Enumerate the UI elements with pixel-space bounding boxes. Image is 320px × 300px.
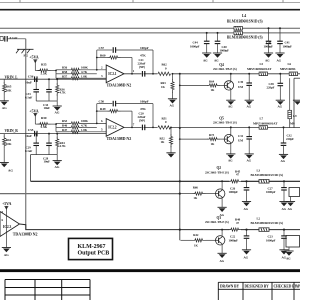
- wire joining caps bottom: [36, 100, 57, 102]
- wire V2 vertical: [179, 74, 181, 241]
- wire tick x20: [19, 0, 21, 3]
- op-amp U2.1 triangle: [106, 65, 124, 83]
- svg-text:1000pF: 1000pF: [190, 44, 200, 48]
- svg-text:47: 47: [236, 173, 239, 177]
- svg-text:AG: AG: [278, 105, 283, 109]
- capacitor C26: [246, 181, 248, 187]
- svg-text:1K: 1K: [194, 244, 198, 248]
- capacitor C56 inline: [35, 76, 37, 82]
- wire tick x133: [132, 0, 134, 3]
- svg-text:TDA1308D N2: TDA1308D N2: [107, 136, 132, 141]
- svg-text:(NP): (NP): [139, 65, 145, 69]
- svg-text:1000pF: 1000pF: [266, 190, 276, 194]
- svg-text:1K: 1K: [211, 142, 215, 146]
- wire collector Q2: [221, 181, 223, 189]
- left revision table: [5, 280, 90, 300]
- svg-text:Q2: Q2: [217, 166, 222, 170]
- svg-text:1K: 1K: [211, 88, 215, 92]
- resistor R73: [207, 138, 220, 141]
- capacitor C27: [283, 181, 285, 187]
- svg-text:VRIN_R: VRIN_R: [5, 129, 19, 133]
- svg-text:Output PCB: Output PCB: [78, 251, 110, 257]
- resistor R44 vertical: [56, 134, 58, 139]
- svg-text:AG: AG: [228, 158, 233, 162]
- svg-text:4.7K: 4.7K: [81, 124, 88, 128]
- svg-text:C57: C57: [99, 46, 105, 50]
- svg-text:AG: AG: [55, 165, 60, 169]
- svg-text:2SC3661-TB-E (S): 2SC3661-TB-E (S): [213, 67, 237, 71]
- capacitor C34 10uF: [48, 79, 50, 89]
- wire emitter Q3 + ground: [221, 245, 223, 253]
- svg-text:AG: AG: [8, 169, 13, 173]
- svg-text:AG: AG: [214, 58, 219, 62]
- resistor R45 on line A: [230, 179, 242, 184]
- transistor Q5: [224, 134, 233, 143]
- svg-text:DESIGNED BY: DESIGNED BY: [245, 285, 270, 289]
- svg-text:L2: L2: [257, 217, 261, 221]
- svg-text:R50: R50: [41, 116, 47, 120]
- svg-text:C55: C55: [28, 128, 34, 132]
- svg-text:5.3K: 5.3K: [41, 125, 48, 129]
- capacitor C57 feedback: [97, 49, 113, 51]
- ground caps ch1: [53, 106, 62, 111]
- resistor R65 vertical: [3, 79, 5, 83]
- wire pin2 feedback vertical: [96, 50, 98, 70]
- svg-text:BLM31BD601SN1D (S): BLM31BD601SN1D (S): [227, 20, 263, 24]
- resistor R56 row1: [56, 69, 69, 71]
- svg-text:L6: L6: [288, 62, 292, 66]
- svg-text:AG: AG: [228, 105, 233, 109]
- svg-text:47K: 47K: [140, 107, 146, 111]
- wire riser to line A: [30, 155, 32, 182]
- svg-text:AG: AG: [282, 207, 287, 211]
- transistor Q3: [216, 236, 225, 245]
- resistor R46 row2: [56, 126, 69, 128]
- inductor L6 bead on W1: [289, 72, 297, 76]
- ground R61: [0, 163, 9, 168]
- svg-text:BLM31BD601SN1D (S): BLM31BD601SN1D (S): [227, 35, 263, 39]
- transistor Q2: [216, 189, 225, 198]
- ground jack: [293, 100, 302, 105]
- connector stub box: [0, 37, 3, 41]
- wire input ch2: [0, 133, 34, 135]
- wire junction vertical ch2: [55, 123, 57, 131]
- capacitor C45: [268, 28, 270, 41]
- wire input ch1: [0, 78, 34, 80]
- wire base ch2: [180, 138, 208, 140]
- junction dots on V2: [179, 229, 181, 231]
- svg-text:R56: R56: [62, 66, 68, 70]
- svg-text:5.3K: 5.3K: [41, 71, 48, 75]
- svg-text:220pF: 220pF: [267, 86, 275, 90]
- wire output W1: [124, 73, 300, 75]
- svg-text:C50: C50: [99, 100, 105, 104]
- inductor L5 bead on W1: [259, 72, 267, 76]
- op-amp U2.3 triangle: [0, 212, 20, 237]
- svg-text:L3: L3: [257, 168, 261, 172]
- svg-text:4.7K: 4.7K: [60, 144, 67, 148]
- svg-text:1000pF: 1000pF: [264, 44, 274, 48]
- svg-text:MPZ1608S: MPZ1608S: [280, 67, 296, 71]
- svg-text:10uF: 10uF: [25, 81, 32, 85]
- svg-text:R55: R55: [41, 63, 47, 67]
- capacitor C39: [248, 74, 250, 83]
- capacitor C21 inline 220uF NP: [142, 71, 144, 77]
- svg-text:+5VA: +5VA: [29, 108, 39, 113]
- capacitor C30 0.1uF: [35, 134, 37, 144]
- capacitor C22: [246, 230, 248, 236]
- resistor R51 0 inline: [158, 125, 172, 130]
- ground FG (chassis): [16, 49, 34, 53]
- thick border: [0, 269, 300, 272]
- resistor R66: [193, 192, 206, 195]
- svg-text:AG: AG: [170, 104, 175, 108]
- svg-text:R58: R58: [62, 70, 68, 74]
- svg-text:1000pF: 1000pF: [229, 190, 239, 194]
- resistor R57 row3: [56, 77, 69, 79]
- wire junction vertical: [55, 70, 57, 78]
- svg-text:AP: AP: [296, 285, 301, 289]
- ground jack A: [290, 197, 292, 202]
- svg-text:TDA1308D N2: TDA1308D N2: [13, 231, 38, 236]
- svg-text:AG: AG: [247, 105, 252, 109]
- wire joining caps bottom ch2: [31, 154, 58, 156]
- capacitor C55 inline: [35, 131, 37, 137]
- svg-text:4.7K: 4.7K: [60, 91, 67, 95]
- svg-text:AG: AG: [2, 106, 7, 110]
- wire dark top rail: [0, 9, 300, 11]
- ground jack D: [288, 247, 290, 251]
- svg-text:L5: L5: [260, 62, 264, 66]
- resistor R60 feedback: [97, 57, 108, 59]
- wire collector Q4: [230, 74, 232, 81]
- svg-text:1000pF: 1000pF: [220, 49, 230, 53]
- svg-text:L4: L4: [242, 14, 246, 18]
- resistor R50: [38, 123, 51, 126]
- svg-text:C56: C56: [28, 75, 34, 79]
- resistor R53 row1: [56, 122, 69, 124]
- svg-text:AG: AG: [286, 257, 291, 261]
- wire collector Q5: [230, 127, 232, 134]
- wire top thin bus: [0, 2, 300, 4]
- resistor R49 feedback: [97, 110, 108, 112]
- resistor R62 0 inline: [158, 72, 172, 77]
- svg-text:R60: R60: [100, 53, 106, 57]
- svg-text:AG: AG: [244, 207, 249, 211]
- svg-text:10uF: 10uF: [44, 160, 51, 164]
- wire bus T3b: [0, 32, 234, 34]
- inductor L4b ferrite bead on T3b: [234, 31, 242, 35]
- svg-text:AG: AG: [247, 158, 252, 162]
- svg-text:100K: 100K: [81, 119, 88, 123]
- svg-text:L7: L7: [260, 116, 264, 120]
- transistor Q4: [224, 81, 233, 90]
- jack ch1 right edge: [294, 77, 300, 79]
- capacitor C28 10uF: [48, 134, 50, 144]
- svg-text:0.1uF: 0.1uF: [25, 95, 32, 99]
- svg-text:UM: UM: [238, 138, 243, 142]
- svg-text:MPZ1608S601AT: MPZ1608S601AT: [253, 122, 278, 126]
- svg-text:2SC3661-TB-E (S): 2SC3661-TB-E (S): [205, 171, 229, 175]
- svg-text:+5VA: +5VA: [2, 201, 12, 206]
- svg-text:BLM31BD601SN1D (S): BLM31BD601SN1D (S): [251, 173, 284, 177]
- svg-text:BLM31BD601SN1D (S): BLM31BD601SN1D (S): [251, 221, 284, 225]
- connector jack A: [289, 188, 300, 197]
- resistor R63 vertical + ground: [172, 74, 174, 80]
- svg-text:DRAWN BY: DRAWN BY: [220, 285, 240, 289]
- capacitor C33 0.1uF: [35, 79, 37, 89]
- capacitor C41: [279, 28, 281, 41]
- resistor R47 row3: [56, 131, 69, 133]
- resistor R58 row2: [56, 73, 69, 75]
- svg-text:AG: AG: [203, 58, 208, 62]
- right title block: [218, 282, 300, 300]
- svg-text:L9: L9: [293, 114, 297, 118]
- capacitor C44: [206, 33, 208, 41]
- capacitor C32: [283, 127, 285, 143]
- svg-text:R47: R47: [62, 128, 68, 132]
- resistor R52 vertical + ground: [170, 127, 172, 135]
- svg-text:2SC3661-TB-E (S): 2SC3661-TB-E (S): [213, 121, 237, 125]
- svg-text:MPZ1608S601AT: MPZ1608S601AT: [247, 67, 272, 71]
- svg-text:0.1uF: 0.1uF: [25, 149, 32, 153]
- resistor R61 vertical: [3, 134, 5, 138]
- wire collector Q3: [221, 230, 223, 236]
- svg-text:10uF: 10uF: [44, 106, 51, 110]
- svg-text:220pF: 220pF: [286, 137, 294, 141]
- svg-text:1000pF: 1000pF: [283, 44, 293, 48]
- svg-text:M9: M9: [290, 122, 295, 126]
- svg-text:AG: AG: [288, 207, 293, 211]
- svg-text:R53: R53: [62, 119, 68, 123]
- capacitor inline 0.1uF: [5, 36, 7, 42]
- svg-text:1000pF: 1000pF: [266, 239, 276, 243]
- svg-text:0.1uF: 0.1uF: [10, 36, 18, 40]
- svg-text:R42: R42: [193, 233, 199, 237]
- capacitor C38: [279, 74, 281, 84]
- inductor L3 bead on line A: [259, 180, 269, 184]
- svg-text:1K: 1K: [161, 85, 165, 89]
- resistor R55: [38, 69, 51, 72]
- svg-text:TDA1308D N2: TDA1308D N2: [107, 83, 132, 88]
- svg-text:AG: AG: [265, 58, 270, 62]
- svg-text:R73: R73: [209, 133, 215, 137]
- svg-text:4.7K: 4.7K: [81, 70, 88, 74]
- wire pin6 feedback vertical: [96, 104, 98, 124]
- wire output W2: [124, 126, 300, 128]
- wire: [3, 38, 5, 40]
- svg-text:R64: R64: [209, 79, 215, 83]
- wire bus T3a: [0, 27, 234, 29]
- svg-text:100pF: 100pF: [140, 100, 149, 104]
- svg-text:1K: 1K: [193, 196, 197, 200]
- capacitor C31: [248, 127, 250, 136]
- svg-text:10K: 10K: [6, 89, 12, 93]
- svg-text:AG: AG: [277, 58, 282, 62]
- svg-text:100K: 100K: [81, 66, 88, 70]
- wire line B: [0, 193, 180, 195]
- svg-text:47: 47: [236, 221, 239, 225]
- svg-text:10uF: 10uF: [25, 134, 32, 138]
- svg-text:AG: AG: [281, 159, 286, 163]
- svg-text:AG: AG: [244, 255, 249, 259]
- wire emitter Q2 + ground: [221, 198, 223, 207]
- svg-text:(NP): (NP): [139, 118, 145, 122]
- inductor L2 bead on line D: [259, 228, 269, 232]
- svg-text:1000pF: 1000pF: [229, 239, 239, 243]
- ground IC2.3: [2, 248, 11, 253]
- capacitor C20 inline 220uF NP: [142, 124, 144, 130]
- svg-text:AG: AG: [220, 259, 225, 263]
- resistor R42: [193, 239, 206, 242]
- svg-text:KLM-2967: KLM-2967: [78, 244, 106, 250]
- ground R65: [0, 101, 9, 106]
- svg-text:10K: 10K: [6, 142, 12, 146]
- svg-text:R49: R49: [100, 107, 106, 111]
- ground caps ch2: [53, 161, 62, 166]
- wire emitter Q4 + ground: [230, 90, 232, 100]
- svg-text:UM: UM: [238, 85, 243, 89]
- resistor R36 vertical: [56, 79, 58, 85]
- connector jack D: [286, 236, 300, 248]
- capacitor C46: [217, 33, 219, 41]
- svg-text:+5VA: +5VA: [29, 55, 39, 60]
- inductor L9 vertical bead: [289, 78, 291, 128]
- svg-text:AG: AG: [4, 253, 9, 257]
- svg-text:1.8K: 1.8K: [81, 74, 88, 78]
- svg-text:R46: R46: [62, 124, 68, 128]
- svg-text:R57: R57: [62, 74, 68, 78]
- wire line A: [31, 180, 301, 182]
- resistor R64: [207, 84, 220, 87]
- wire emitter Q5 + ground: [230, 144, 232, 154]
- wire tick x283: [282, 0, 284, 3]
- svg-text:IC2.3: IC2.3: [3, 225, 11, 229]
- inductor L7 bead on W2: [259, 126, 267, 130]
- op-amp U2.2 triangle: [106, 119, 124, 137]
- wire V1 long vertical: [25, 39, 27, 230]
- svg-text:IC2.1: IC2.1: [108, 72, 116, 76]
- capacitor C50 feedback: [97, 103, 113, 105]
- wire tick x213: [212, 0, 214, 3]
- svg-text:47K: 47K: [140, 53, 146, 57]
- svg-text:AG: AG: [55, 111, 60, 115]
- svg-text:IC2.2: IC2.2: [108, 126, 116, 130]
- svg-text:2SC3661-TB-E (S): 2SC3661-TB-E (S): [205, 220, 229, 224]
- svg-text:CHECKED BY: CHECKED BY: [274, 285, 298, 289]
- wire line D from apex: [20, 224, 301, 230]
- svg-text:1.8K: 1.8K: [81, 128, 88, 132]
- capacitor C23: [283, 230, 285, 236]
- inductor L4 ferrite bead on T3a: [234, 26, 242, 30]
- svg-text:C39: C39: [238, 80, 244, 84]
- svg-text:C31: C31: [238, 134, 244, 138]
- svg-text:R66: R66: [193, 185, 199, 189]
- wire base ch1: [180, 84, 208, 86]
- svg-text:1K: 1K: [161, 140, 165, 144]
- resistor R40 on line D: [230, 227, 242, 232]
- svg-text:100pF: 100pF: [140, 46, 149, 50]
